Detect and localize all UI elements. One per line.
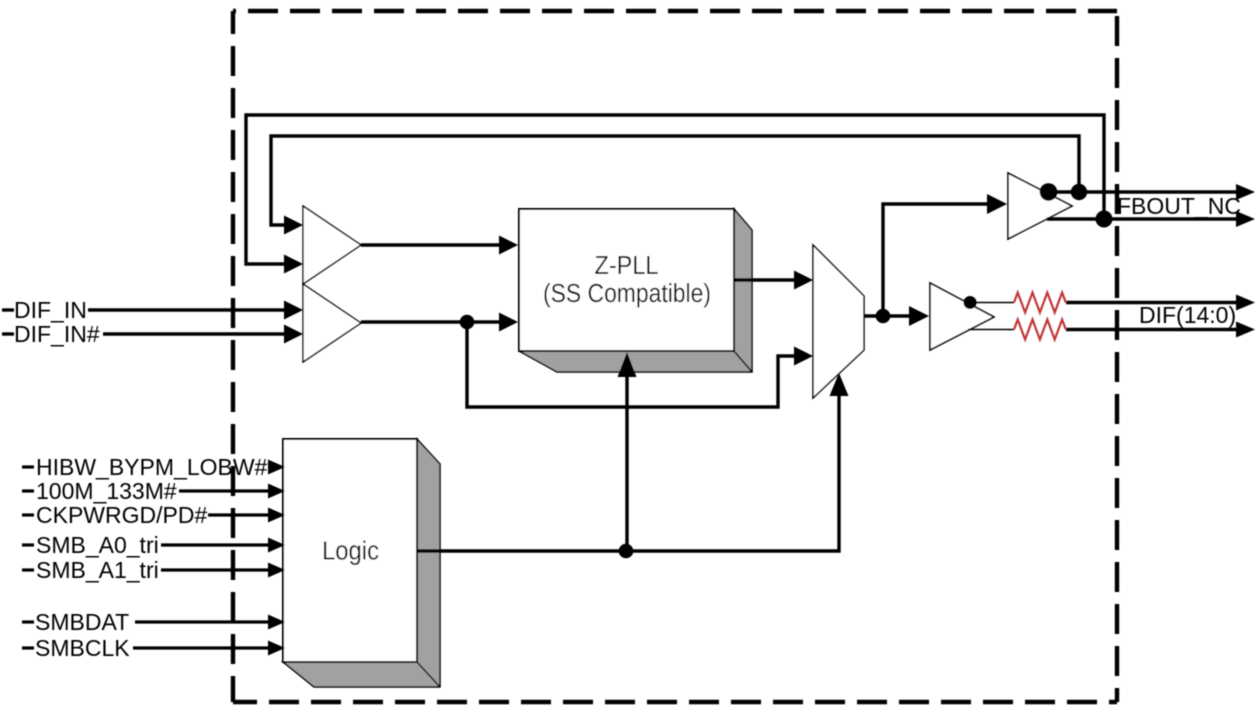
svg-text:DIF_IN: DIF_IN: [14, 297, 87, 323]
svg-text:SMB_A0_tri: SMB_A0_tri: [36, 532, 159, 558]
svg-text:Z-PLL: Z-PLL: [595, 252, 659, 280]
svg-text:SMBCLK: SMBCLK: [35, 635, 130, 661]
svg-text:Logic: Logic: [322, 538, 379, 566]
svg-text:SMB_A1_tri: SMB_A1_tri: [36, 557, 159, 583]
svg-text:SMBDAT: SMBDAT: [35, 609, 129, 635]
svg-text:DIF_IN#: DIF_IN#: [14, 321, 100, 347]
svg-text:100M_133M#: 100M_133M#: [36, 478, 177, 504]
svg-text:FBOUT_NC: FBOUT_NC: [1117, 193, 1241, 219]
svg-text:HIBW_BYPM_LOBW#: HIBW_BYPM_LOBW#: [36, 454, 268, 480]
svg-text:(SS Compatible): (SS Compatible): [543, 280, 711, 308]
svg-text:CKPWRGD/PD#: CKPWRGD/PD#: [36, 502, 207, 528]
svg-text:DIF(14:0): DIF(14:0): [1139, 302, 1236, 328]
